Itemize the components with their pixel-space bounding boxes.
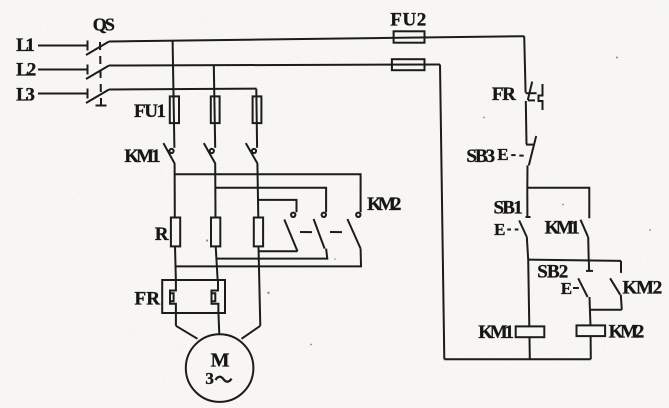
svg-text:FU2: FU2	[390, 10, 426, 31]
svg-text:QS: QS	[93, 15, 115, 35]
svg-text:E: E	[494, 220, 505, 239]
svg-text:L3: L3	[16, 84, 35, 105]
svg-text:KM2: KM2	[623, 278, 663, 299]
svg-text:E: E	[561, 279, 572, 298]
svg-text:FR: FR	[135, 289, 161, 310]
svg-text:KM2: KM2	[367, 194, 401, 215]
svg-text:FU1: FU1	[134, 101, 166, 122]
svg-text:L2: L2	[16, 60, 36, 81]
svg-text:KM1: KM1	[124, 146, 160, 167]
svg-text:FR: FR	[492, 84, 516, 105]
svg-text:L1: L1	[16, 35, 35, 56]
svg-text:KM1: KM1	[545, 218, 580, 239]
svg-text:KM2: KM2	[609, 322, 645, 343]
svg-text:R: R	[155, 224, 169, 245]
svg-text:E: E	[497, 145, 508, 164]
svg-text:SB1: SB1	[494, 198, 523, 219]
svg-text:KM1: KM1	[478, 322, 514, 343]
svg-text:SB3: SB3	[466, 146, 495, 167]
svg-text:3: 3	[205, 369, 214, 388]
